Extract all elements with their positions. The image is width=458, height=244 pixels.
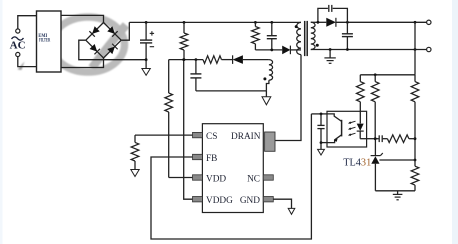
diode VDD rectifier xyxy=(233,55,243,64)
node output terminal + xyxy=(427,20,431,24)
resistor compensation xyxy=(387,135,409,143)
wire output V+ rail xyxy=(336,21,427,23)
resistor VDD filter xyxy=(168,60,170,93)
svg-text:TL431: TL431 xyxy=(343,158,371,169)
diode bridge D1 top-left xyxy=(92,26,100,34)
decorative edge strips xyxy=(452,0,458,244)
resistor snubber xyxy=(254,22,256,26)
svg-text:NC: NC xyxy=(247,175,260,185)
pin VDDG xyxy=(193,197,203,202)
wire opto emitter xyxy=(321,142,327,144)
bridge rectifier diamond xyxy=(86,23,104,41)
wire FB loop xyxy=(151,114,311,239)
svg-text:FB: FB xyxy=(206,154,217,164)
label AC source xyxy=(12,37,24,40)
capacitor bulk electrolytic xyxy=(145,22,147,40)
capacitor FB filter xyxy=(320,114,322,126)
wire TL431 anode line xyxy=(375,190,415,192)
op-amp U1 controller IC xyxy=(202,124,263,213)
pin FB xyxy=(193,154,203,159)
svg-text:VDDG: VDDG xyxy=(206,196,233,206)
inductor aux winding xyxy=(269,60,273,81)
diode bridge D2 top-right xyxy=(107,26,115,34)
resistor CS sense xyxy=(134,135,136,142)
wire DC+ top rail xyxy=(129,21,301,23)
wire opto collector node xyxy=(311,113,327,115)
svg-text:GND: GND xyxy=(240,196,260,206)
optocoupler light arrows xyxy=(350,121,356,123)
ground CS resistor xyxy=(131,170,139,177)
ground aux winding xyxy=(265,91,267,97)
wire secondary top xyxy=(311,21,327,23)
svg-text:FILTER: FILTER xyxy=(39,39,50,44)
resistor VDD series xyxy=(203,56,222,64)
diode bridge D3 bottom-left xyxy=(90,44,98,52)
node AC line terminal xyxy=(16,29,20,33)
optocoupler U2 box xyxy=(327,111,367,147)
capacitor diode snubber loop xyxy=(318,8,328,22)
node output terminal - xyxy=(427,47,431,51)
wire output V- rail xyxy=(311,49,427,51)
wire V+ to divider xyxy=(414,22,416,75)
resistor opto LED series xyxy=(359,75,361,82)
capacitor output xyxy=(346,22,348,34)
transformer secondary winding xyxy=(311,22,315,49)
ground opto emitter xyxy=(320,143,322,150)
pin DRAIN tab xyxy=(265,132,275,151)
pin CS xyxy=(193,132,203,137)
pin GND xyxy=(263,197,273,202)
wire VDD pin xyxy=(169,177,193,179)
diode clamp xyxy=(282,46,290,55)
capacitor snubber xyxy=(271,22,273,35)
wire VDD supply node xyxy=(169,59,203,61)
svg-text:DRAIN: DRAIN xyxy=(231,132,261,142)
wire AC bottom to EMI xyxy=(18,57,37,67)
resistor divider upper xyxy=(414,75,416,82)
resistor TL431 bias xyxy=(374,75,376,82)
svg-text:VDD: VDD xyxy=(206,175,226,185)
wire TL431 ref xyxy=(379,159,415,161)
pin VDD xyxy=(193,175,203,180)
transformer core xyxy=(304,21,306,56)
ground secondary earth xyxy=(329,50,331,58)
svg-text:CS: CS xyxy=(206,132,217,142)
capacitor VDD xyxy=(195,60,197,74)
wire GND pin xyxy=(273,199,291,208)
ground bulk cap xyxy=(145,58,148,61)
EMI filter block xyxy=(37,11,62,72)
ground GND pin xyxy=(288,208,295,214)
wire snubber bottom xyxy=(255,49,282,51)
wire bridge right vertex to DC+ rail xyxy=(121,22,129,40)
capacitor compensation xyxy=(375,138,379,140)
wire EMI to bridge bottom xyxy=(61,58,104,68)
wire EMI to bridge top xyxy=(61,15,104,22)
resistor startup xyxy=(183,22,185,33)
node AC neutral terminal xyxy=(16,52,20,56)
TL431 shunt regulator xyxy=(374,139,376,156)
wire bridge left vertex to DC- rail xyxy=(79,40,146,60)
optocoupler LED xyxy=(357,124,364,131)
diode bridge D4 bottom-right xyxy=(107,47,115,55)
wire VDDG pin xyxy=(184,60,193,200)
wire aux bottom xyxy=(196,90,267,92)
wire divider node xyxy=(360,74,415,76)
wire primary to DRAIN xyxy=(275,55,301,141)
svg-text:AC: AC xyxy=(10,40,26,52)
diode output rectifier xyxy=(326,18,336,27)
wire CS xyxy=(135,134,193,136)
optocoupler phototransistor xyxy=(341,120,343,137)
ground TL431 earth xyxy=(397,191,399,195)
resistor divider lower xyxy=(414,160,416,166)
pin NC xyxy=(263,175,273,180)
transformer primary winding xyxy=(297,22,301,54)
wire AC top to EMI xyxy=(18,16,37,29)
